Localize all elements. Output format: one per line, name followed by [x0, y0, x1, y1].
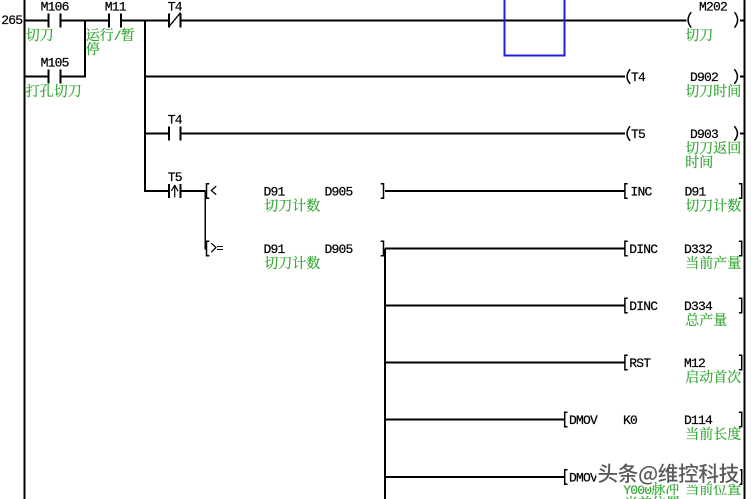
- instruction DMOV K0 D114: [565, 412, 568, 426]
- svg-text:M202: M202: [699, 0, 727, 15]
- contact T4 normally-open: [168, 127, 170, 141]
- svg-text:头条@维控科技: 头条@维控科技: [598, 457, 740, 487]
- svg-text:DMOV: DMOV: [569, 471, 598, 486]
- compare block LT D91 D905: [207, 184, 210, 198]
- wire rung 3: [146, 133, 169, 135]
- svg-text:T4: T4: [168, 0, 183, 15]
- svg-text:当前产量: 当前产量: [685, 253, 741, 273]
- svg-text:M105: M105: [41, 56, 69, 71]
- compare block GE D91 D905: [207, 241, 210, 255]
- svg-text:M106: M106: [41, 0, 69, 15]
- svg-text:DINC: DINC: [629, 242, 658, 257]
- svg-text:当前位置: 当前位置: [624, 493, 680, 499]
- wire rung 8: [385, 419, 565, 421]
- instruction DINC D332: [625, 241, 628, 255]
- svg-text:T4: T4: [168, 113, 183, 128]
- svg-text:M11: M11: [105, 0, 127, 15]
- output branch vertical rail: [384, 249, 386, 499]
- timer coil T5 D903: [627, 126, 630, 141]
- branch vertical after M11: [144, 21, 146, 193]
- svg-text:启动首次: 启动首次: [685, 367, 741, 387]
- wire rung 4: [146, 190, 169, 192]
- contact M106: [48, 14, 50, 28]
- timer coil T4 D902: [627, 69, 630, 84]
- contact M11: [108, 14, 110, 28]
- svg-text:切刀计数: 切刀计数: [264, 196, 320, 216]
- svg-text:D905: D905: [325, 185, 353, 200]
- svg-text:T4: T4: [631, 70, 646, 85]
- contact M105: [48, 70, 50, 84]
- svg-text:RST: RST: [629, 356, 651, 371]
- instruction DINC D334: [625, 298, 628, 312]
- pulse arrow of T5: [171, 185, 178, 198]
- svg-text:当前长度: 当前长度: [685, 424, 741, 444]
- svg-text:INC: INC: [631, 185, 653, 200]
- svg-text:切刀: 切刀: [685, 25, 713, 45]
- svg-text:T5: T5: [631, 127, 645, 142]
- svg-text:265: 265: [1, 13, 22, 28]
- wire rung 2 timer: [146, 76, 626, 78]
- wire rung 1: [26, 20, 48, 22]
- svg-text:打孔切刀: 打孔切刀: [26, 81, 82, 101]
- svg-text:切刀: 切刀: [26, 25, 54, 45]
- svg-text:切刀时间: 切刀时间: [685, 81, 741, 101]
- coil M202: [688, 12, 691, 27]
- wire rung 6: [385, 305, 625, 307]
- wire rung M105 branch: [26, 76, 48, 78]
- slash of NC contact T4: [169, 13, 181, 27]
- blue edit cursor cell: [505, 0, 565, 56]
- svg-text:切刀计数: 切刀计数: [685, 196, 741, 216]
- wire rung 5: [385, 248, 625, 250]
- contact T5 rising pulse: [168, 184, 170, 198]
- svg-text:停: 停: [86, 39, 100, 59]
- branch junction vertical M105: [84, 21, 86, 78]
- contact T4 normally-closed: [168, 14, 170, 28]
- svg-text:DINC: DINC: [629, 299, 658, 314]
- left power rail: [24, 0, 26, 499]
- right power rail: [744, 0, 746, 499]
- instruction DMOV D8340 D114 partially hidden: [565, 470, 568, 484]
- wire rung 9: [385, 476, 565, 478]
- svg-text:时间: 时间: [685, 152, 713, 172]
- svg-text:总产量: 总产量: [685, 310, 727, 330]
- instruction RST M12: [625, 355, 628, 369]
- svg-text:T5: T5: [168, 170, 182, 185]
- svg-text:DMOV: DMOV: [569, 413, 598, 428]
- svg-text:D905: D905: [325, 242, 353, 257]
- instruction INC D91: [625, 184, 628, 198]
- branch vertical row4 to row5: [204, 191, 206, 250]
- wire rung 7: [385, 362, 625, 364]
- watermark toutiao weikong keji: [598, 457, 740, 487]
- svg-text:K0: K0: [623, 413, 637, 428]
- svg-text:切刀计数: 切刀计数: [264, 253, 320, 273]
